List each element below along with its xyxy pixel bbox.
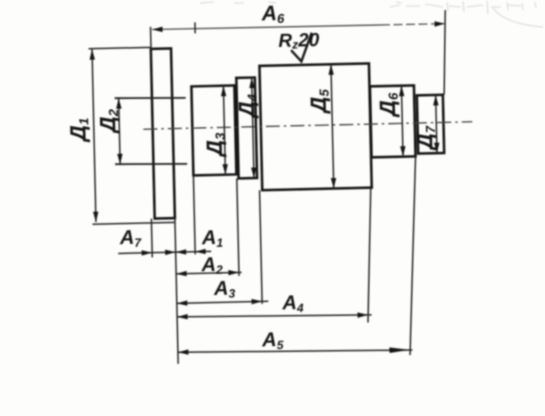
svg-text:Rz20: Rz20 xyxy=(278,30,320,52)
